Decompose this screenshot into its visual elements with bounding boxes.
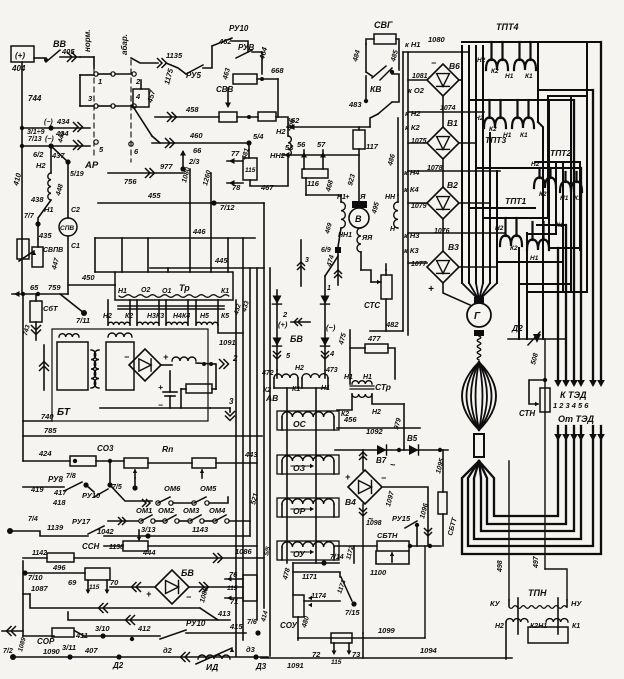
svg-text:Н1: Н1 [344,374,353,381]
wire 1174 [304,600,340,602]
Tr secondary coils [108,322,130,325]
node 6/9 [335,247,341,253]
svg-text:(−): (−) [326,323,336,332]
wire 1096 [382,487,428,546]
svg-text:Я: Я [359,192,366,201]
TPT1 bus [483,217,548,219]
svg-text:455: 455 [147,191,161,200]
svg-text:СТр: СТр [375,382,391,392]
svg-text:1081: 1081 [412,73,428,80]
wire 456 [337,394,352,410]
wire bus x270 [269,268,271,656]
wire 744 left vertical [21,62,23,128]
wire 759 to 7/11 [60,294,84,313]
wire 1094 1091 bottom [261,657,512,659]
traction wire 3 [474,426,581,539]
TPT3 bus [469,99,574,101]
bottom wire row [10,654,16,660]
K TED thick wires [557,248,559,384]
svg-text:759: 759 [48,283,61,292]
svg-text:483: 483 [348,100,362,109]
loop vertical 519 [518,248,520,339]
BT left chevron [43,345,45,390]
svg-text:450: 450 [81,273,95,282]
wire 1172 [353,546,355,563]
svg-text:Н2: Н2 [276,127,286,136]
wire bus x236 [235,300,237,656]
wire row 620 [68,612,230,620]
svg-text:1079: 1079 [411,203,427,210]
fan to G [462,283,479,300]
tap arrow Rp1 [134,470,136,478]
svg-text:418: 418 [52,498,66,507]
wire 1092 [372,394,404,404]
svg-text:−: − [186,592,192,602]
battery terminal (+) 404 [11,46,34,62]
svg-text:к К4: к К4 [404,185,419,194]
svg-text:477: 477 [367,334,381,343]
svg-text:3/13: 3/13 [141,525,156,534]
TPT4 winding a [490,42,492,60]
svg-text:к К2: к К2 [405,123,420,132]
loop wire 571 [570,96,572,292]
resistor 72-73 [331,633,352,643]
diamond B1 [427,127,459,159]
svg-text:62: 62 [291,116,300,125]
svg-text:РУВ: РУВ [238,43,254,52]
svg-text:В1: В1 [447,118,458,128]
svg-text:438: 438 [30,195,44,204]
TPN core [517,598,519,634]
svg-text:Д2: Д2 [511,323,523,333]
svg-text:1098: 1098 [366,520,382,527]
resistor 1142 [47,553,74,562]
svg-text:6/2: 6/2 [33,150,44,159]
wire 446 [95,237,255,239]
svg-text:460: 460 [189,131,203,140]
wire into BV left [110,586,155,588]
svg-text:1099: 1099 [378,626,396,635]
relay contact RUV [236,50,252,58]
BT output coil [161,364,172,366]
svg-text:57: 57 [317,140,326,149]
contact KV 1 [372,66,386,78]
svg-text:К2: К2 [489,126,497,133]
TPN secondary a [506,619,528,622]
stub B3 right [459,266,497,268]
TPT4 bus [462,41,601,43]
wire 458 [155,116,219,118]
svg-text:56: 56 [297,140,306,149]
svg-text:7/6: 7/6 [247,619,257,626]
wire mid vertical x316 [315,388,317,563]
resistor 477 [365,344,388,353]
node 2/3 [180,166,185,171]
svg-text:434: 434 [56,117,70,126]
BT bottom wire [100,407,210,409]
contact 1 [94,72,98,76]
wire left col to SO3 [22,294,24,461]
arrow 73 [348,643,350,653]
resistor STN [529,380,545,404]
wire 508 [544,339,546,569]
svg-text:Н1: Н1 [118,288,127,295]
wire 481 [248,143,250,158]
svg-text:К5: К5 [221,313,229,320]
svg-text:115: 115 [227,585,238,592]
svg-text:В4: В4 [345,497,356,507]
svg-text:5/19: 5/19 [70,171,84,178]
svg-text:1138: 1138 [109,544,124,551]
svg-text:ОС: ОС [293,419,307,429]
svg-text:к К3: к К3 [404,246,419,255]
svg-text:ОМ4: ОМ4 [209,506,226,515]
svg-text:1094: 1094 [420,646,438,655]
svg-text:472: 472 [261,370,274,377]
svg-text:ИД: ИД [206,662,218,672]
bus vertical 403 [402,52,404,331]
loop horizontal y162 [535,161,580,163]
svg-text:7/12: 7/12 [220,203,235,212]
svg-text:(−): (−) [45,136,54,143]
svg-text:443: 443 [244,450,258,459]
diamond B2 [427,187,459,219]
traction wire 4 [479,426,574,531]
svg-text:К1: К1 [525,73,533,80]
svg-text:С2: С2 [71,207,80,214]
loop horizontal y292 [527,291,587,293]
svg-text:−: − [431,58,437,68]
svg-text:СВГ: СВГ [374,20,393,30]
wire 450 into Tr [114,284,116,286]
diode B5 [409,445,419,455]
svg-text:65: 65 [30,283,39,292]
loop wire 548 [547,96,549,218]
svg-text:норм.: норм. [83,29,92,52]
wire OM row 1 [110,485,152,501]
svg-text:115: 115 [331,659,342,666]
winding OS [277,411,339,430]
wire 1099 up [424,546,426,638]
contact 5 [94,140,98,144]
svg-text:Rп: Rп [162,444,174,454]
traction wire 1 [462,426,601,554]
svg-text:7/4: 7/4 [28,516,38,523]
loop horizontal y225 [537,224,566,226]
coil left of V [341,202,345,228]
diamond BV [155,570,189,604]
wire SO3 row [23,460,70,462]
svg-text:~: ~ [390,460,396,470]
svg-text:СбТ: СбТ [43,304,59,313]
wire bus x243 [242,238,244,640]
svg-text:СВВ: СВВ [216,85,234,94]
wire x325 vertical [324,276,326,370]
arrow 56 [303,150,305,169]
svg-text:66: 66 [193,146,202,155]
svg-text:К2: К2 [125,313,133,320]
svg-text:К ТЭД: К ТЭД [560,390,587,400]
svg-text:Н1: Н1 [560,195,569,202]
svg-text:ОМ1: ОМ1 [136,506,152,515]
svg-text:Д3: Д3 [255,662,267,671]
svg-text:2: 2 [232,354,238,363]
winding OZ [277,455,339,474]
switch 1173 [341,577,352,601]
svg-text:473: 473 [325,367,338,374]
svg-text:1135: 1135 [166,51,183,60]
resistor SVPV 2 [32,247,43,267]
svg-text:70: 70 [110,578,119,587]
svg-text:В5: В5 [407,434,418,443]
svg-text:115: 115 [89,584,100,591]
svg-text:4: 4 [329,349,335,358]
resistor 76 115 71 [243,575,257,601]
wire 785 [23,435,262,437]
resistor SOU [293,595,304,617]
coil right of V [394,202,398,228]
wire 1087 [23,573,30,594]
diode BV a [273,296,282,305]
svg-text:7/8: 7/8 [66,473,76,480]
svg-text:7/13: 7/13 [28,136,42,143]
wire 410 main vertical [21,128,23,294]
svg-text:Г: Г [474,311,481,322]
resistor 457 [133,89,149,107]
svg-text:1: 1 [98,77,102,86]
wire SOR row [23,635,54,637]
svg-text:Н2: Н2 [36,161,46,170]
BT resistor [186,384,212,393]
resistor 115 (467) [243,158,257,180]
svg-text:1080: 1080 [428,35,446,44]
svg-text:СО3: СО3 [97,444,114,453]
svg-text:ССН: ССН [82,542,100,551]
svg-text:+: + [163,352,169,362]
svg-text:785: 785 [44,426,57,435]
generator G [474,297,484,303]
svg-text:115: 115 [245,167,256,174]
wire bus x257 [256,268,258,620]
wire 478 [292,563,294,595]
diode B7 [377,445,387,455]
coil below V [357,228,361,252]
node D2 [116,654,121,659]
node 7/10 [22,570,27,575]
svg-text:ТПН: ТПН [528,588,547,598]
svg-text:53: 53 [285,143,294,152]
svg-text:3/11: 3/11 [62,643,76,652]
svg-text:СВПВ: СВПВ [43,247,63,254]
svg-text:740: 740 [41,412,54,421]
wire 3 chevrons up [300,240,302,286]
Tr H5 step wire [218,325,243,333]
wire 450 [68,284,115,286]
wire 460 66 [152,142,249,144]
arrow 76 [225,578,243,580]
svg-text:3/1÷9: 3/1÷9 [27,129,45,136]
svg-text:О1: О1 [162,288,171,295]
svg-text:4: 4 [135,92,141,101]
svg-text:От ТЭД: От ТЭД [558,414,594,424]
diamond chain 3 [442,219,444,251]
TPT1 winding a [504,218,506,236]
bracket 1100 [376,551,409,564]
svg-text:404: 404 [11,64,26,73]
svg-text:(+): (+) [15,51,25,60]
svg-text:1091: 1091 [287,661,304,670]
svg-text:498: 498 [497,560,504,573]
wire 475 [349,330,351,379]
svg-text:ОМ3: ОМ3 [183,506,200,515]
svg-text:1042: 1042 [97,527,115,536]
svg-text:7/2: 7/2 [3,648,13,655]
chevron up to row [360,456,367,460]
svg-text:1087: 1087 [31,584,49,593]
svg-text:482: 482 [385,320,399,329]
BT out 3 [210,407,230,409]
wire 1080 down [189,169,191,272]
wire edge chevron [2,630,23,632]
loop horizontal y96 [548,95,587,97]
svg-text:+: + [428,284,434,295]
svg-text:ЯЯ: ЯЯ [361,235,373,242]
wire bus x264 [263,203,265,608]
svg-text:СОУ: СОУ [280,621,297,630]
svg-text:НУ: НУ [571,599,582,608]
wire 484 [365,44,367,72]
svg-text:+: + [158,382,163,392]
svg-text:977: 977 [160,162,173,171]
resistor 496 [85,568,110,580]
svg-text:1 2 3 4 5 6: 1 2 3 4 5 6 [553,401,589,410]
arrow 70 down [106,580,108,592]
resistor 116 [302,169,328,178]
svg-text:78: 78 [232,183,241,192]
svg-text:СБТН: СБТН [377,531,398,540]
node 5/19 [65,159,70,164]
squiggle below G [477,336,481,360]
dashed line norm [93,60,95,158]
svg-text:ТПТ2: ТПТ2 [550,148,571,158]
svg-text:к Н2: к Н2 [405,109,421,118]
svg-text:1075: 1075 [411,138,427,145]
stub B2 right [459,202,490,204]
svg-text:1076: 1076 [434,228,450,235]
svg-text:7/10: 7/10 [28,573,43,582]
arrow up 2/3 [182,152,184,169]
svg-text:К1: К1 [520,132,528,139]
BT box2 [106,342,134,390]
svg-text:СПВ: СПВ [60,225,74,232]
svg-text:С1: С1 [71,243,80,250]
TPN box [528,627,568,643]
wire 498 [508,461,510,600]
wire 65 row [12,293,68,295]
traction wire 2 [468,426,593,546]
wire OM row 2 [108,520,138,522]
resistor SOR [52,628,74,637]
loop wire 563 [562,162,564,292]
svg-text:69: 69 [68,578,77,587]
svg-text:7/14: 7/14 [330,554,344,561]
inductor ID [198,655,230,659]
wire 7/5 up [109,461,111,485]
svg-text:7/15: 7/15 [345,608,360,617]
svg-text:АР: АР [84,160,99,171]
node 3/11 [67,654,72,659]
resistor 458 [219,112,237,122]
svg-text:444: 444 [142,548,156,557]
svg-text:БВ: БВ [290,334,303,344]
traction wire 5 [479,426,566,524]
svg-text:Н2: Н2 [477,57,486,64]
arrow tap [19,251,34,261]
svg-text:В: В [355,214,362,224]
svg-text:ОР: ОР [293,506,306,516]
svg-text:ОМ2: ОМ2 [158,506,175,515]
arrow into SSN [138,530,140,540]
svg-text:Н3К3: Н3К3 [147,313,164,320]
svg-text:7/11: 7/11 [76,316,90,325]
svg-text:(−): (−) [44,119,53,126]
svg-text:7/5: 7/5 [112,484,122,491]
node 7/14 [321,560,326,565]
tap arrow Rp2 [201,470,203,478]
svg-text:462: 462 [218,37,232,46]
wire 438 [38,200,51,239]
svg-text:3: 3 [229,397,234,406]
svg-text:Н5: Н5 [200,313,209,320]
wire 486 [397,118,399,195]
svg-text:Н2: Н2 [495,623,504,630]
svg-text:+: + [345,192,350,201]
svg-text:77: 77 [231,149,240,158]
BT output chevron 2 [220,360,225,369]
svg-text:1174: 1174 [311,593,326,600]
loop wire 556 [555,162,557,234]
svg-text:1171: 1171 [302,574,317,581]
wire B4 bottom 1098 [362,504,364,633]
svg-text:1142: 1142 [32,550,47,557]
block BT box [52,329,208,421]
loop vertical 527 [526,233,528,339]
svg-text:К1: К1 [572,623,580,630]
svg-text:Тр: Тр [179,283,190,293]
winding OU [277,541,339,560]
svg-text:Д2: Д2 [112,661,124,670]
svg-text:6/9: 6/9 [321,247,331,254]
bundle wire 6 [496,171,498,283]
diode BV b [321,296,330,305]
svg-text:5/4: 5/4 [253,132,264,141]
svg-text:496: 496 [52,563,66,572]
resistor Rp2 [192,458,216,468]
bundle wire 3 [475,46,477,283]
arrow 77 [227,160,243,162]
loop horizontal y262 [497,261,563,263]
wire B3 to G [443,283,470,305]
svg-text:435: 435 [38,231,52,240]
bundle wire 2 [468,46,470,283]
wire diode row 450 [335,449,448,451]
svg-text:Н2: Н2 [495,225,504,232]
node 5/4 [246,140,251,145]
BT input coil [59,334,79,337]
wire row 608 [30,594,200,608]
svg-text:к О2: к О2 [408,86,425,95]
wire 3/1-9 row [22,127,90,129]
